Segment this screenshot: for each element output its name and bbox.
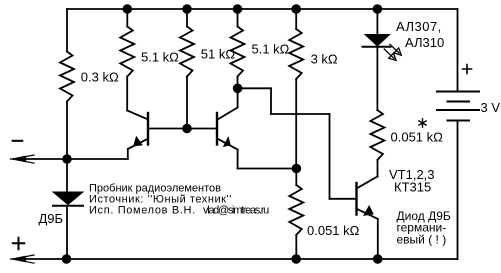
transistor VT3 collector diagonal: [357, 177, 378, 189]
battery GB1 short plate 1: [448, 101, 470, 103]
svg-text:АЛ310: АЛ310: [405, 35, 444, 50]
svg-text:3 V: 3 V: [481, 100, 501, 115]
wire node2 to R7: [295, 169, 297, 186]
LED HL1 cathode bar: [363, 46, 391, 48]
node dot base node: [182, 124, 192, 134]
svg-text:0.3 kΩ: 0.3 kΩ: [81, 70, 119, 85]
wire R4 top lead: [237, 9, 239, 27]
diode VD1 D9B cathode bar: [53, 205, 83, 207]
node dot bottom rail 1: [62, 254, 72, 264]
LED HL1 triangle: [365, 35, 390, 47]
minus probe arrow: [11, 155, 35, 163]
node dot bottom rail 2: [291, 254, 301, 264]
transistor VT2 emitter arrow: [223, 136, 231, 147]
transistor VT1 emitter diagonal: [128, 139, 148, 149]
wire battery - riser: [457, 121, 459, 260]
transistor VT2 base bar: [216, 113, 218, 145]
wire VT2 emitter to node2: [238, 168, 297, 170]
battery GB1 long plate 1: [437, 91, 479, 93]
transistor VT3 emitter arrow: [363, 205, 374, 216]
svg-text:Д9Б: Д9Б: [39, 211, 64, 226]
wire minus probe line: [14, 158, 128, 160]
wire R7 bottom lead: [295, 235, 297, 259]
LED HL1 light arrow 1: [390, 44, 401, 55]
node dot node2: [292, 164, 302, 174]
wire R5 top lead: [295, 9, 297, 29]
transistor VT1 base bar: [147, 113, 149, 145]
wire VT2 collector riser: [237, 88, 239, 107]
resistor R1 0.3k zigzag: [60, 52, 74, 102]
wire VT3 base drop: [329, 114, 331, 199]
wire top rail: [67, 8, 458, 10]
minus probe sign: [13, 140, 23, 142]
wire diode lead from minus node: [66, 159, 68, 192]
wire R6 bottom lead: [377, 160, 379, 177]
svg-text:КТ315: КТ315: [394, 180, 431, 195]
wire LED top lead: [376, 9, 378, 35]
wire R5 bottom lead to node2: [295, 79, 297, 169]
node dot top rail 1: [123, 4, 133, 14]
node dot top rail 2: [182, 4, 192, 14]
svg-text:3 kΩ: 3 kΩ: [311, 52, 338, 67]
wire R4 bottom lead: [237, 77, 239, 89]
svg-text:5.1 kΩ: 5.1 kΩ: [252, 42, 290, 57]
plus probe arrow: [11, 255, 35, 263]
node dot collector node: [233, 84, 243, 94]
svg-text:Источник: ''Юный техник'': Источник: ''Юный техник'': [89, 193, 232, 205]
svg-text:Исп. Помелов В.Н.: Исп. Помелов В.Н.: [89, 205, 196, 217]
transistor VT3 base bar: [355, 183, 357, 215]
wire VT1 emitter riser: [127, 149, 129, 159]
resistor R7 0.051k zigzag: [289, 185, 303, 235]
resistor R2 5.1k zigzag: [120, 27, 134, 77]
node dot top rail 4: [291, 4, 301, 14]
wire VT3 emitter drop: [377, 219, 379, 259]
transistor VT2 collector diagonal: [218, 108, 238, 120]
wire node E to VT3 base: horizontal 1: [238, 87, 271, 89]
node dot top rail 3: [233, 4, 243, 14]
svg-text:АЛ307,: АЛ307,: [396, 19, 442, 34]
transistor VT3 emitter diagonal: [357, 209, 378, 219]
wire R2 bottom lead: [126, 77, 128, 111]
asterisk marker: [419, 119, 426, 127]
wire node E drop: [270, 88, 272, 114]
resistor R4 5.1k zigzag: [231, 27, 245, 77]
wire R3 bottom lead to base node: [186, 77, 188, 129]
wire LED to R6: [376, 47, 378, 110]
svg-text:0.051 kΩ: 0.051 kΩ: [391, 130, 444, 145]
svg-text:евый ( ! ): евый ( ! ): [397, 233, 447, 247]
wire R2 top lead: [126, 9, 128, 27]
node dot top rail 5: [373, 4, 383, 14]
wire diode to bottom rail: [66, 206, 68, 259]
wire base rail VT1-VT2: [148, 128, 217, 130]
wire bottom rail: [14, 258, 458, 260]
wire VT1 collector diagonal: [127, 111, 148, 120]
transistor VT1 emitter arrow: [133, 136, 143, 147]
svg-text:0.051 kΩ: 0.051 kΩ: [307, 223, 360, 238]
transistor VT2 emitter diagonal: [218, 139, 238, 150]
battery GB1 short plate 2: [448, 120, 470, 122]
svg-text:vlad@simtreas.ru: vlad@simtreas.ru: [203, 205, 269, 217]
svg-text:5.1 kΩ: 5.1 kΩ: [141, 50, 179, 65]
wire VT3 base feed: [330, 198, 357, 200]
battery GB1 long plate 2: [437, 109, 479, 111]
wire left column top lead: [66, 9, 68, 52]
diode VD1 D9B triangle: [53, 192, 83, 205]
LED HL1 light arrow 2: [384, 49, 396, 61]
wire right drop to battery +: [457, 9, 459, 92]
node dot bottom rail 3: [373, 254, 383, 264]
wire VT2 emitter drop: [237, 150, 239, 169]
wire node E horizontal 2: [271, 113, 330, 115]
svg-text:51 kΩ: 51 kΩ: [201, 47, 236, 62]
wire R1 bottom lead: [66, 102, 68, 160]
resistor R5 3k zigzag: [289, 29, 303, 79]
battery plus sign: [463, 65, 472, 74]
resistor R3 51k zigzag: [180, 27, 194, 77]
plus probe sign: [13, 238, 24, 249]
wire R3 top lead: [186, 9, 188, 27]
node dot minus node: [62, 154, 72, 164]
resistor R6 0.051k zigzag: [370, 110, 384, 160]
